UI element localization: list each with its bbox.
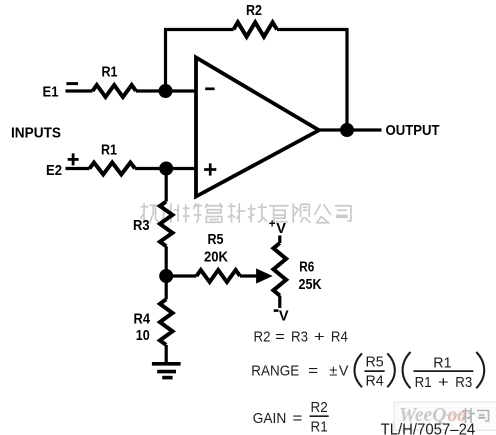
wire feedback: top run to R2: [164, 28, 234, 31]
resistor R1 (E2 branch): [90, 163, 136, 175]
svg-text:OUTPUT: OUTPUT: [386, 123, 440, 139]
resistor R2 feedback: [234, 22, 278, 36]
svg-text:±: ±: [329, 363, 337, 380]
paren ): [476, 352, 484, 388]
wire R3 to junction: [165, 246, 168, 276]
svg-text:R2: R2: [311, 399, 328, 416]
svg-text:R5: R5: [366, 353, 384, 370]
potentiometer R6: [273, 243, 286, 296]
svg-text:20K: 20K: [204, 250, 228, 266]
ground: [152, 362, 181, 366]
svg-text:V: V: [339, 363, 349, 380]
op-amp inverting (-) pin mark: [205, 87, 214, 90]
svg-text:25K: 25K: [299, 277, 322, 293]
svg-text:E1: E1: [43, 85, 59, 101]
svg-text:INPUTS: INPUTS: [11, 126, 61, 142]
svg-text:R1: R1: [101, 143, 117, 159]
svg-text:=: =: [292, 410, 302, 427]
wire E2 to R1: [66, 167, 90, 170]
svg-text:V: V: [276, 221, 286, 237]
svg-text:E2: E2: [46, 163, 62, 179]
svg-text:+: +: [314, 329, 325, 346]
wire R1 to non-inverting input node: [135, 167, 196, 170]
wire feedback: R2 to output column: [277, 28, 347, 31]
svg-text:+: +: [269, 219, 276, 231]
E1 minus polarity mark: [66, 82, 78, 85]
svg-text:V: V: [279, 309, 289, 325]
wire junction to R4: [165, 276, 168, 299]
op-amp U1: [196, 58, 319, 197]
svg-text:GAIN: GAIN: [253, 410, 287, 427]
paren ): [387, 353, 395, 387]
svg-text:R2: R2: [246, 3, 262, 19]
node: non-inverting input junction: [159, 162, 173, 176]
node: R3/R4/R5 junction: [159, 269, 173, 283]
svg-text:R4: R4: [331, 329, 348, 346]
resistor R5: [197, 270, 241, 282]
wiper arrow into R6: [257, 269, 272, 283]
wire R1 to inverting input node: [136, 89, 196, 92]
watermark: WeeQoo logo box (decorative): [394, 402, 496, 430]
svg-text:R4: R4: [366, 372, 384, 389]
svg-text:R1: R1: [102, 65, 118, 81]
wire op-amp output: [319, 128, 382, 131]
svg-text:R1: R1: [415, 374, 432, 391]
svg-text:R3: R3: [291, 329, 308, 346]
svg-text:R3: R3: [455, 374, 472, 391]
wire junction to R5: [166, 274, 196, 277]
watermark: company name (decorative gray CJK): [141, 203, 351, 223]
wire R6 to -V: [278, 296, 281, 308]
svg-text:R1: R1: [433, 354, 451, 371]
wire +V to R6: [278, 236, 281, 244]
svg-text:R5: R5: [208, 232, 224, 248]
-V supply label: [274, 309, 279, 312]
paren (: [403, 352, 411, 388]
wire E1 to R1: [66, 89, 93, 92]
wire feedback: down to output node: [345, 28, 348, 130]
svg-text:RANGE: RANGE: [251, 363, 299, 380]
op-amp non-inverting (+) pin mark: [204, 168, 216, 171]
svg-text:=: =: [275, 329, 285, 346]
paren (: [355, 353, 363, 387]
svg-text:+: +: [438, 374, 449, 391]
svg-text:R2: R2: [254, 329, 271, 346]
resistor R1 (E1 branch): [93, 85, 137, 97]
svg-text:R4: R4: [134, 312, 151, 328]
wire node to R3: [165, 169, 168, 202]
svg-text:R1: R1: [311, 418, 328, 435]
svg-text:=: =: [308, 363, 318, 380]
svg-text:R3: R3: [133, 218, 150, 234]
node: output junction: [340, 123, 354, 137]
wire R5 to wiper arrow: [240, 274, 259, 277]
E2 plus polarity mark: [68, 158, 79, 161]
svg-text:10: 10: [136, 328, 150, 344]
wire feedback: node up: [164, 30, 167, 92]
node: inverting input junction: [159, 84, 173, 98]
wire R4 to ground: [165, 345, 168, 363]
svg-text:TL/H/7057–24: TL/H/7057–24: [381, 421, 476, 435]
svg-text:R6: R6: [299, 260, 314, 276]
resistor R4: [160, 299, 173, 345]
resistor R3: [160, 202, 173, 247]
